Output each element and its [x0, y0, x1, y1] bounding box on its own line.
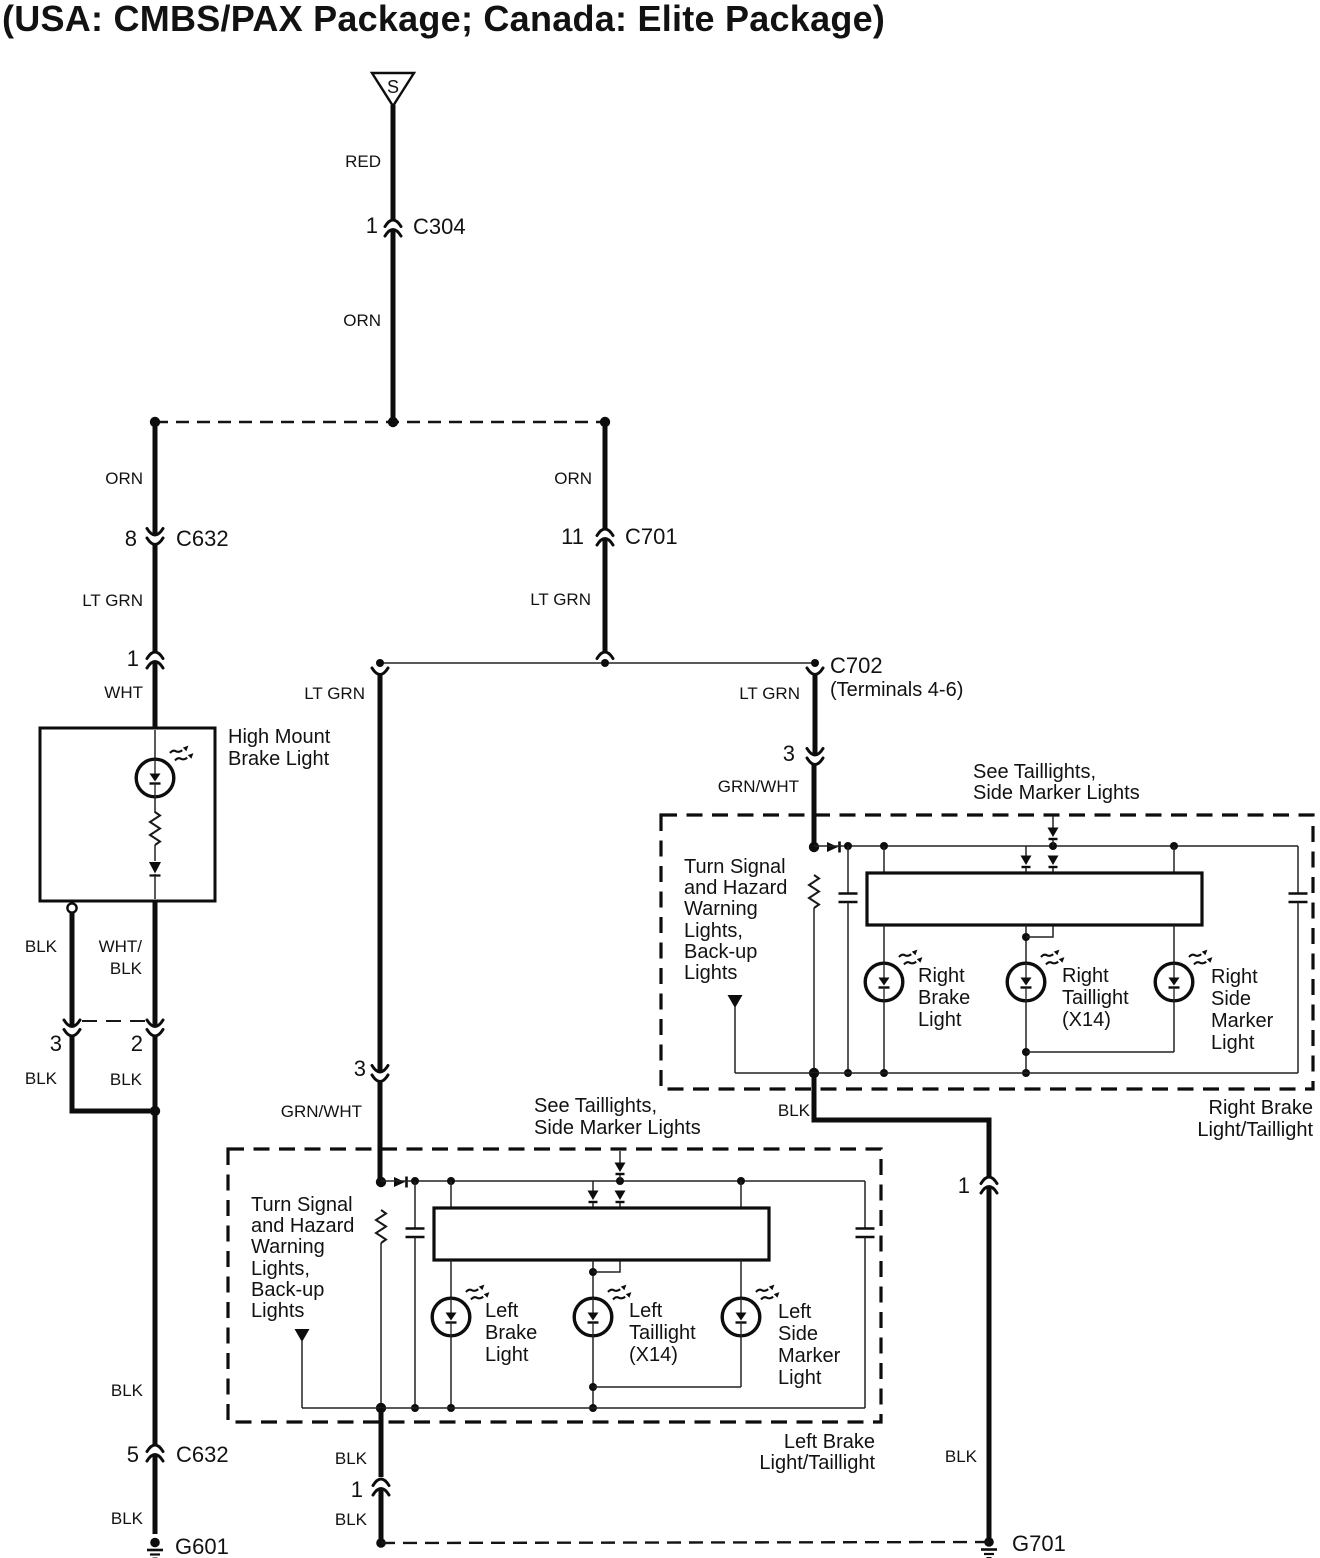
brake lamp column lower — [450, 1260, 452, 1298]
capacitor C-a lead — [847, 846, 849, 893]
node mid rail — [589, 1383, 597, 1391]
svg-text:1: 1 — [127, 646, 139, 671]
svg-text:GRN/WHT: GRN/WHT — [718, 777, 799, 796]
svg-text:8: 8 — [125, 526, 137, 551]
svg-text:Left: Left — [778, 1301, 812, 1323]
svg-text:Brake Light: Brake Light — [228, 748, 330, 770]
svg-text:High Mount: High Mount — [228, 726, 331, 748]
ground bus node — [376, 1538, 386, 1548]
off-page arrow (turn signal feed, left) — [295, 1329, 310, 1342]
wire from arrow to bottom rail — [734, 1007, 736, 1073]
svg-text:(X14): (X14) — [1062, 1009, 1111, 1031]
node mid rail — [1022, 1048, 1030, 1056]
terminal (open circle) — [67, 903, 76, 912]
label Turn Signal and Hazard Warning Lights, Back-up Lights (left) — [251, 1194, 354, 1322]
taillight column lower — [592, 1260, 594, 1298]
wire LT GRN down right — [813, 674, 818, 754]
svg-text:LT GRN: LT GRN — [530, 590, 591, 609]
right capacitor lead lower — [1297, 902, 1299, 1073]
svg-text:Brake: Brake — [918, 987, 970, 1009]
bottom rail — [302, 1407, 865, 1409]
taillight column to rail — [1025, 1001, 1027, 1073]
svg-text:(USA: CMBS/PAX Package; Canada: (USA: CMBS/PAX Package; Canada: Elite Pa… — [2, 0, 885, 39]
svg-text:2: 2 — [131, 1031, 143, 1056]
svg-text:LT GRN: LT GRN — [739, 684, 800, 703]
svg-text:BLK: BLK — [25, 937, 58, 956]
top rail — [381, 1180, 865, 1182]
capacitor C-a lead — [414, 1181, 416, 1228]
brake lamp column upper — [450, 1181, 452, 1209]
mid rail — [1026, 1051, 1174, 1053]
label Left Side Marker Light — [778, 1301, 841, 1389]
connector C702 half (wire end) — [597, 652, 613, 659]
connector C632 pin 8 — [147, 529, 163, 545]
svg-text:C304: C304 — [413, 214, 466, 239]
node — [411, 1404, 419, 1412]
svg-text:Light/Taillight: Light/Taillight — [1197, 1119, 1313, 1141]
connector pin 3 — [64, 1020, 80, 1036]
svg-text:BLK: BLK — [111, 1509, 144, 1528]
svg-text:WHT/: WHT/ — [99, 937, 143, 956]
wire ORN left branch — [153, 422, 158, 535]
svg-text:BLK: BLK — [25, 1069, 58, 1088]
bulb right brake light — [865, 950, 922, 1001]
taillight column to relay — [592, 1203, 594, 1209]
svg-text:Right: Right — [918, 965, 965, 987]
connector C304 pin 1 — [385, 220, 401, 236]
wire LT GRN left branch — [153, 543, 158, 652]
svg-text:See Taillights,: See Taillights, — [534, 1095, 657, 1117]
svg-text:Right: Right — [1211, 966, 1258, 988]
junction dot main in — [809, 842, 819, 852]
svg-text:Warning: Warning — [684, 898, 758, 920]
label Turn Signal and Hazard Warning Lights, Back-up Lights (right) — [684, 856, 787, 984]
svg-text:BLK: BLK — [778, 1101, 811, 1120]
taillight column to relay — [1025, 868, 1027, 874]
wire WHT/BLK from box — [153, 901, 158, 1026]
bulb left brake light — [432, 1285, 489, 1336]
connector pin 2 — [147, 1020, 163, 1036]
bulb left side marker light — [722, 1285, 779, 1336]
node at 815 — [811, 659, 819, 667]
node bottom rail — [589, 1404, 597, 1412]
connector pin 1 (right) — [981, 1177, 997, 1193]
svg-text:ORN: ORN — [105, 469, 143, 488]
svg-text:C632: C632 — [176, 526, 229, 551]
svg-text:Marker: Marker — [778, 1345, 841, 1367]
diode feed lower (right box) — [1048, 856, 1059, 868]
svg-text:Light: Light — [485, 1344, 529, 1366]
svg-text:Back-up: Back-up — [251, 1279, 324, 1301]
svg-text:ORN: ORN — [343, 311, 381, 330]
ground G601 — [147, 1538, 163, 1558]
node taillight jog — [589, 1268, 597, 1276]
bulb right side marker light — [1155, 950, 1212, 1001]
connector C702 terminal (left) — [372, 668, 388, 675]
brake lamp column to rail — [450, 1336, 452, 1408]
power source feed S — [372, 73, 414, 106]
wire ORN right branch — [603, 422, 608, 530]
internal lead top — [154, 730, 156, 759]
label Left Brake Light — [485, 1300, 537, 1366]
svg-text:Light: Light — [778, 1367, 822, 1389]
feed column link — [619, 1175, 621, 1181]
connector C702 terminal (right) — [807, 668, 823, 675]
connector pin 1 (left) — [373, 1479, 389, 1495]
svg-text:5: 5 — [127, 1442, 139, 1467]
junction dot main in — [376, 1177, 386, 1187]
svg-text:BLK: BLK — [110, 959, 143, 978]
label Right Brake Light — [918, 965, 970, 1031]
node — [447, 1177, 455, 1185]
svg-text:G601: G601 — [175, 1534, 229, 1558]
svg-text:BLK: BLK — [110, 1070, 143, 1089]
wire ORN from C304 to splice bus — [391, 231, 396, 422]
svg-text:3: 3 — [354, 1056, 366, 1081]
ground G701 — [981, 1537, 997, 1558]
wire BLK to ground bus — [379, 1490, 384, 1540]
svg-text:Back-up: Back-up — [684, 941, 757, 963]
label Left Brake Light/Taillight — [759, 1431, 875, 1474]
rail C702 terminals — [380, 662, 815, 664]
label Right Side Marker Light — [1211, 966, 1274, 1054]
svg-text:BLK: BLK — [335, 1510, 368, 1529]
wire RED from S to C304 — [391, 105, 396, 220]
svg-text:Light: Light — [1211, 1032, 1255, 1054]
mid rail — [593, 1386, 741, 1388]
svg-text:C702: C702 — [830, 653, 883, 678]
svg-text:C632: C632 — [176, 1442, 229, 1467]
node — [447, 1404, 455, 1412]
wire GRN/WHT into left box — [378, 1081, 383, 1183]
node — [1049, 842, 1057, 850]
jog link to relay — [1026, 926, 1053, 937]
splice node right — [600, 417, 610, 427]
svg-text:RED: RED — [345, 152, 381, 171]
label Right Taillight (X14) — [1062, 965, 1129, 1031]
svg-text:Right: Right — [1062, 965, 1109, 987]
high mount brake light unit box — [40, 728, 215, 901]
dashed splice bus — [155, 421, 605, 423]
svg-text:Brake: Brake — [485, 1322, 537, 1344]
taillight column to rail — [592, 1336, 594, 1408]
capacitor C-b (right box) — [1289, 894, 1308, 903]
diode feed upper (left box) — [615, 1163, 626, 1175]
node — [844, 842, 852, 850]
svg-text:LT GRN: LT GRN — [82, 591, 143, 610]
splice node center — [388, 417, 398, 427]
feed column to relay — [1052, 868, 1054, 874]
node taillight jog — [1022, 933, 1030, 941]
svg-text:Side: Side — [1211, 988, 1251, 1010]
wire BLK elbow join — [72, 1035, 152, 1112]
feed column link — [1052, 840, 1054, 846]
wire LT GRN down left — [378, 674, 383, 1071]
svg-text:Right Brake: Right Brake — [1209, 1097, 1314, 1119]
wire BLK to ground — [153, 1456, 158, 1534]
wire BLK down to C632 — [153, 1035, 158, 1447]
left brake light/taillight unit (dashed box) — [228, 1149, 881, 1422]
node at 380 — [376, 659, 384, 667]
feed column above box — [1052, 816, 1054, 828]
jog link to relay — [593, 1261, 620, 1272]
diode taillight (left box) — [588, 1191, 599, 1203]
svg-text:Lights,: Lights, — [684, 920, 743, 942]
splice node left — [150, 417, 160, 427]
junction dot main out — [376, 1403, 386, 1413]
connector pin 3 (left taillight) — [372, 1066, 388, 1082]
svg-text:G701: G701 — [1012, 1531, 1066, 1556]
wire WHT into high mount brake light — [153, 663, 158, 730]
diode taillight (right box) — [1021, 856, 1032, 868]
svg-text:BLK: BLK — [335, 1449, 368, 1468]
node — [616, 1177, 624, 1185]
capacitor C-a (right box) — [839, 894, 858, 903]
svg-text:Left: Left — [629, 1300, 663, 1322]
taillight column from rail — [1025, 846, 1027, 856]
svg-text:1: 1 — [366, 213, 378, 238]
svg-text:and Hazard: and Hazard — [684, 877, 787, 899]
connector C701 pin 11 — [597, 529, 613, 545]
wire resistor to bottom rail — [813, 908, 815, 1073]
svg-text:BLK: BLK — [111, 1381, 144, 1400]
svg-text:1: 1 — [958, 1173, 970, 1198]
wire LT GRN right branch — [603, 540, 608, 651]
svg-text:Side Marker Lights: Side Marker Lights — [534, 1117, 701, 1139]
internal lead bottom — [154, 874, 156, 899]
brake lamp column to rail — [883, 1001, 885, 1073]
svg-text:Turn Signal: Turn Signal — [684, 856, 786, 878]
marker column to mid rail — [740, 1336, 742, 1387]
diode feed lower (left box) — [615, 1191, 626, 1203]
taillight column from rail — [592, 1181, 594, 1191]
svg-text:S: S — [387, 77, 399, 97]
svg-text:Lights,: Lights, — [251, 1258, 310, 1280]
feed column to relay — [619, 1203, 621, 1209]
diode D1 (left box) — [394, 1177, 407, 1188]
taillight column lower — [1025, 925, 1027, 963]
node at 605 — [601, 659, 609, 667]
bottom rail — [735, 1072, 1298, 1074]
svg-text:Left: Left — [485, 1300, 519, 1322]
svg-text:Lights: Lights — [684, 962, 737, 984]
node — [737, 1177, 745, 1185]
brake lamp column upper — [883, 846, 885, 874]
junction dot — [150, 1106, 160, 1116]
capacitor C-a lead lower — [414, 1237, 416, 1408]
resistor (internal) — [150, 812, 160, 845]
marker column to mid rail — [1173, 1001, 1175, 1052]
svg-text:(X14): (X14) — [629, 1344, 678, 1366]
svg-text:Light: Light — [918, 1009, 962, 1031]
diode (internal, cathode down) — [149, 862, 161, 874]
svg-text:Left Brake: Left Brake — [784, 1431, 875, 1453]
svg-text:and Hazard: and Hazard — [251, 1215, 354, 1237]
internal lead — [154, 845, 156, 861]
capacitor C-a lead lower — [847, 902, 849, 1073]
right capacitor lead lower — [864, 1237, 866, 1408]
wire from arrow to bottom rail — [301, 1341, 303, 1408]
wire BLK elbow to right — [814, 1073, 989, 1178]
wire GRN/WHT into right box — [812, 764, 817, 848]
dashed connector link — [82, 1020, 146, 1022]
svg-text:3: 3 — [783, 741, 795, 766]
capacitor C-a (left box) — [406, 1229, 425, 1238]
svg-text:Side Marker Lights: Side Marker Lights — [973, 782, 1140, 804]
marker column lower — [1173, 925, 1175, 963]
internal lead middle — [154, 797, 156, 813]
wire resistor to bottom rail — [380, 1243, 382, 1408]
node — [1170, 842, 1178, 850]
connector pin 3 (right taillight) — [807, 749, 823, 765]
marker column lower — [740, 1260, 742, 1298]
right capacitor lead upper — [864, 1181, 866, 1228]
svg-text:See Taillights,: See Taillights, — [973, 761, 1096, 783]
svg-text:LT GRN: LT GRN — [304, 684, 365, 703]
svg-text:Taillight: Taillight — [629, 1322, 696, 1344]
svg-text:Light/Taillight: Light/Taillight — [759, 1452, 875, 1474]
node — [844, 1069, 852, 1077]
wire BLK from terminal — [70, 913, 75, 1026]
label Left Taillight (X14) — [629, 1300, 696, 1366]
resistor (right box) — [809, 875, 819, 908]
relay block (left box) — [434, 1208, 769, 1260]
off-page arrow (turn signal feed, right) — [728, 995, 743, 1008]
svg-text:Turn Signal: Turn Signal — [251, 1194, 353, 1216]
svg-text:(Terminals 4-6): (Terminals 4-6) — [830, 679, 963, 701]
node — [880, 842, 888, 850]
relay block (right box) — [867, 873, 1202, 925]
label Right Brake Light/Taillight — [1197, 1097, 1313, 1141]
marker column upper — [740, 1181, 742, 1209]
svg-text:Marker: Marker — [1211, 1010, 1274, 1032]
right capacitor lead upper — [1297, 846, 1299, 893]
svg-text:Warning: Warning — [251, 1236, 325, 1258]
svg-text:Side: Side — [778, 1323, 818, 1345]
diode feed upper (right box) — [1048, 828, 1059, 840]
svg-text:WHT: WHT — [104, 683, 143, 702]
bulb right taillight — [1007, 950, 1064, 1001]
svg-text:ORN: ORN — [554, 469, 592, 488]
junction dot main out — [809, 1068, 819, 1078]
node bottom rail — [1022, 1069, 1030, 1077]
right brake light/taillight unit (dashed box) — [661, 815, 1313, 1089]
resistor (left box) — [376, 1210, 386, 1243]
diode D1 (right box) — [827, 842, 840, 853]
wire BLK down to G701 — [987, 1188, 992, 1538]
svg-text:3: 3 — [50, 1031, 62, 1056]
bulb high mount brake light — [136, 746, 193, 797]
svg-text:GRN/WHT: GRN/WHT — [281, 1102, 362, 1121]
node — [880, 1069, 888, 1077]
top rail — [814, 845, 1298, 847]
svg-text:1: 1 — [351, 1477, 363, 1502]
dashed ground bus — [381, 1542, 989, 1543]
marker column upper — [1173, 846, 1175, 874]
capacitor C-b (left box) — [856, 1229, 875, 1238]
svg-text:C701: C701 — [625, 524, 678, 549]
bulb left taillight — [574, 1285, 631, 1336]
svg-text:Taillight: Taillight — [1062, 987, 1129, 1009]
svg-text:11: 11 — [561, 524, 584, 549]
svg-text:Lights: Lights — [251, 1300, 304, 1322]
connector C632 pin 5 — [147, 1445, 163, 1461]
brake lamp column lower — [883, 925, 885, 963]
svg-text:BLK: BLK — [945, 1447, 978, 1466]
node — [411, 1177, 419, 1185]
wire BLK out of left box — [379, 1408, 384, 1477]
feed column above box — [619, 1151, 621, 1163]
connector pin 1 (high mount brake light) — [147, 652, 163, 668]
